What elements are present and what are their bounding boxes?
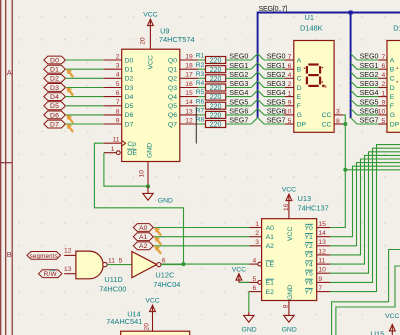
U9 pin 1 OE (inverted) [104, 146, 138, 157]
svg-text:B: B [390, 67, 395, 74]
global label D0 [44, 56, 66, 64]
svg-text:SEG3: SEG3 [267, 79, 286, 88]
svg-text:Q4: Q4 [168, 94, 177, 101]
inverter U12C 74HC04 [132, 252, 166, 278]
U9 pin 5 D3 [103, 81, 133, 92]
bus entry SEG5 (left) [251, 99, 257, 106]
wire NAND out to inverter in [107, 264, 132, 266]
U1 pin 8 CC [322, 118, 344, 129]
global label D7 [44, 120, 66, 128]
svg-text:dp: dp [324, 85, 328, 89]
svg-text:1: 1 [381, 90, 385, 97]
sheet border frame [0, 0, 12, 335]
U9 pin 4 D2 [103, 72, 133, 83]
U13 pin 5 E1 (inverted) [239, 276, 274, 287]
U9 pin 13 Q6 [168, 108, 198, 119]
svg-text:SEG0: SEG0 [229, 52, 248, 61]
display2 pin 1 E [378, 90, 395, 101]
IC U13 74HC137 body [262, 219, 317, 301]
U1 pin 4 C [285, 72, 302, 83]
U9 pin 3 D1 [103, 63, 133, 74]
U13 pin 10 Y5 [304, 267, 330, 278]
global label D6 [44, 111, 66, 119]
svg-text:74HC04: 74HC04 [153, 280, 180, 289]
svg-text:SEG1: SEG1 [229, 61, 248, 70]
svg-text:14: 14 [318, 230, 326, 237]
display2 pin 2 D [378, 81, 395, 92]
svg-text:SEG6: SEG6 [267, 107, 286, 116]
svg-text:220: 220 [210, 58, 222, 65]
U13 pin 16 VCC [283, 203, 294, 241]
U9 pin 12 Q7 [168, 118, 198, 129]
display2 pin 10 G [378, 109, 395, 120]
wire + local label SEG3 to U1 [264, 79, 285, 88]
svg-text:Q2: Q2 [168, 76, 177, 83]
svg-text:SEG7: SEG7 [267, 116, 286, 125]
svg-text:Q6: Q6 [168, 112, 177, 119]
svg-text:12: 12 [318, 248, 326, 255]
U9 pin 19 Q0 [168, 53, 198, 64]
svg-text:SEG4: SEG4 [229, 88, 248, 97]
wire CC chain to displays right [345, 169, 400, 171]
display2 pin 6 B [378, 63, 395, 74]
U9 pin 11 Cp (clock) [103, 137, 136, 149]
svg-text:A1: A1 [266, 234, 275, 241]
svg-text:74HC137: 74HC137 [298, 203, 329, 212]
junction at U9 gnd [146, 184, 150, 188]
svg-text:E2: E2 [266, 289, 275, 296]
svg-text:12: 12 [64, 248, 72, 255]
svg-text:10: 10 [378, 109, 386, 116]
svg-text:SEG[0..7]: SEG[0..7] [259, 4, 288, 13]
resistor R4 220 [196, 80, 226, 92]
wire A0 label to U13 [153, 227, 249, 229]
wire + local label SEG0 to U1 [264, 52, 285, 61]
wire inverter out to U13 LE [161, 263, 250, 265]
wire + local label SEG2 to display 2 [357, 70, 378, 79]
svg-text:Y2: Y2 [304, 243, 313, 250]
svg-text:SEG1: SEG1 [360, 61, 379, 70]
bus entry SEG0 (left) [251, 54, 257, 60]
U1 pin 5 DP [285, 118, 307, 129]
bus entry SEG5 (U1 side) [258, 99, 264, 106]
svg-text:SEG0: SEG0 [267, 52, 286, 61]
wire + local label SEG4 to U1 [264, 88, 285, 97]
svg-text:6: 6 [116, 90, 120, 97]
svg-text:Q3: Q3 [168, 85, 177, 92]
svg-text:D3: D3 [125, 85, 134, 92]
wire E2 to GND [248, 292, 250, 312]
wire + local label SEG6 to display 2 [357, 107, 378, 116]
wire Q7 to R8 [198, 123, 205, 125]
U13 pin 2 A1 [250, 230, 275, 241]
svg-text:SEG5: SEG5 [267, 97, 286, 106]
ERC marker on A1 [154, 237, 161, 245]
svg-text:CC: CC [322, 121, 332, 128]
svg-text:SEG7: SEG7 [360, 116, 379, 125]
svg-text:15: 15 [185, 90, 193, 97]
svg-text:GND: GND [282, 326, 297, 333]
svg-text:10: 10 [139, 170, 146, 178]
display2 pin 7 A [378, 54, 395, 65]
NAND gate U11D 74HC00 [64, 248, 115, 279]
U9 pin 6 D4 [103, 90, 133, 101]
svg-text:C: C [297, 76, 302, 83]
svg-text:DP: DP [297, 121, 307, 128]
svg-text:6: 6 [162, 257, 166, 264]
svg-text:4: 4 [381, 72, 385, 79]
wire Q2 to R3 [198, 77, 205, 79]
svg-text:220: 220 [210, 94, 222, 101]
svg-text:A2: A2 [266, 243, 275, 250]
power symbol VCC (U9) [143, 11, 157, 49]
wire R5 to bus entry / local label SEG4 [226, 88, 252, 97]
svg-text:E1: E1 [266, 280, 275, 287]
wire + local label SEG7 to U1 [264, 116, 285, 125]
wire Q1 to R2 [198, 68, 205, 70]
bus entry SEG2 (display 2) [351, 72, 357, 78]
wire D4 to U9 pin 6 [65, 96, 103, 98]
wire Y5 to display CC (staircase) [330, 152, 400, 273]
svg-text:9: 9 [381, 100, 385, 107]
svg-text:R/W: R/W [44, 271, 58, 278]
svg-text:Y3: Y3 [304, 252, 313, 259]
wire Cp net: U9.11 to U13.4 LE [94, 143, 183, 264]
svg-text:SEG7: SEG7 [229, 116, 248, 125]
resistor R7 220 [196, 108, 226, 120]
svg-text:6: 6 [252, 285, 256, 292]
U13 pin 4 LE (inverted) [250, 258, 275, 269]
svg-text:U11D: U11D [104, 275, 122, 284]
wire + local label SEG6 to U1 [264, 107, 285, 116]
svg-text:11: 11 [113, 137, 120, 144]
svg-text:SEG6: SEG6 [360, 107, 379, 116]
svg-text:DP: DP [390, 121, 400, 128]
wire E1 to VCC [239, 281, 250, 283]
bus entry SEG7 (left) [251, 118, 257, 124]
U1 pin 7 A [285, 54, 302, 65]
wire from bottom (U15 area) to right displays (outer) [332, 250, 400, 335]
bus entry SEG3 (U1 side) [258, 81, 264, 88]
svg-text:3: 3 [255, 239, 259, 246]
svg-text:5: 5 [119, 257, 123, 264]
svg-text:R6: R6 [196, 98, 205, 105]
wire D3 to U9 pin 5 [65, 87, 103, 89]
wire + local label SEG0 to display 2 [357, 52, 378, 61]
svg-text:2: 2 [255, 230, 259, 237]
svg-text:G: G [390, 112, 395, 119]
svg-text:A: A [297, 57, 302, 64]
svg-text:3: 3 [336, 109, 340, 116]
display U1 D148K body [294, 41, 334, 133]
wire + local label SEG4 to display 2 [357, 88, 378, 97]
U9 pin 9 D7 [103, 118, 133, 129]
bus entry SEG2 (left) [251, 72, 257, 78]
U13 pin 14 Y1 [304, 230, 330, 241]
bus entry SEG6 (left) [251, 109, 257, 115]
bus entry SEG7 (U1 side) [258, 118, 264, 124]
wire + local label SEG2 to U1 [264, 70, 285, 79]
svg-text:Y1: Y1 [304, 234, 313, 241]
U13 pin 6 E2 [249, 285, 274, 296]
bus entry SEG1 (display 2) [351, 63, 357, 69]
svg-text:D6: D6 [50, 112, 59, 119]
U9 pin 17 Q2 [168, 72, 198, 83]
svg-text:5: 5 [252, 276, 256, 283]
U9 pin 2 D0 [103, 53, 133, 64]
wire + local label SEG7 to display 2 [357, 116, 378, 125]
svg-text:74HC00: 74HC00 [99, 284, 126, 293]
svg-text:SEG5: SEG5 [229, 97, 248, 106]
svg-text:Y5: Y5 [304, 271, 313, 278]
svg-text:D0: D0 [125, 57, 134, 64]
resistor R5 220 [196, 89, 226, 101]
wire D7 to U9 pin 9 [65, 123, 103, 125]
wire U1 CC pin3 loop [343, 115, 345, 124]
svg-text:1: 1 [255, 221, 259, 228]
wire from bottom (U15 area) to right displays (inner) [336, 266, 400, 335]
svg-text:SEG1: SEG1 [267, 61, 286, 70]
wire inverter output [161, 264, 184, 266]
svg-text:SEG2: SEG2 [267, 70, 286, 79]
bus entry SEG5 (display 2) [351, 99, 357, 106]
resistor R2 220 [196, 62, 226, 74]
display U2 body (clipped) [387, 41, 400, 133]
wire Q0 to R1 [198, 59, 205, 61]
svg-text:5: 5 [116, 81, 120, 88]
svg-text:D2: D2 [125, 76, 134, 83]
svg-text:14: 14 [185, 99, 193, 106]
resistor R1 220 [196, 53, 226, 65]
svg-text:D1: D1 [393, 24, 400, 33]
U9 pin 20 VCC [140, 37, 155, 69]
bus entry SEG4 (display 2) [351, 90, 357, 96]
svg-text:SEG6: SEG6 [229, 107, 248, 116]
global label D2 [44, 74, 66, 82]
ERC marker on D1 [66, 69, 73, 77]
U13 pin 11 Y4 [304, 258, 330, 269]
svg-text:7: 7 [381, 54, 385, 61]
wire + local label SEG5 to U1 [264, 97, 285, 106]
junction LE net [182, 262, 186, 266]
svg-text:GND: GND [158, 197, 173, 204]
svg-text:D: D [390, 85, 395, 92]
svg-text:74AHC541: 74AHC541 [106, 317, 142, 326]
ERC marker on D7 [66, 124, 73, 132]
U13 pin 3 A2 [250, 239, 275, 250]
svg-text:D6: D6 [125, 112, 134, 119]
svg-text:17: 17 [185, 72, 193, 79]
U1 pin 1 E [285, 90, 302, 101]
svg-text:220: 220 [210, 122, 222, 129]
svg-text:D5: D5 [125, 103, 134, 110]
svg-text:Q1: Q1 [168, 67, 177, 74]
U9 pin 10 GND [139, 143, 154, 186]
svg-text:D148K: D148K [300, 24, 323, 33]
svg-text:U13: U13 [298, 194, 312, 203]
power symbol VCC (U13) [282, 186, 296, 218]
svg-text:GND: GND [146, 143, 153, 158]
bus entry SEG6 (display 2) [351, 109, 357, 115]
global label D1 [44, 65, 66, 73]
svg-text:12: 12 [185, 118, 193, 125]
bus entry SEG3 (display 2) [351, 81, 357, 88]
svg-text:D4: D4 [125, 94, 134, 101]
wire + local label SEG3 to display 2 [357, 79, 378, 88]
wire Q6 to R7 [198, 114, 205, 116]
bus entry SEG2 (U1 side) [258, 72, 264, 78]
svg-text:F: F [297, 103, 301, 110]
svg-text:GND: GND [242, 326, 257, 333]
wire Y2 to display CC (staircase) [330, 163, 400, 246]
svg-text:VCC: VCC [287, 227, 294, 241]
svg-text:SEG5: SEG5 [360, 97, 379, 106]
junction CC to next displays [343, 168, 347, 172]
svg-text:1: 1 [288, 90, 292, 97]
global label A1 [133, 233, 153, 241]
svg-text:D7: D7 [50, 122, 59, 129]
svg-text:9: 9 [288, 100, 292, 107]
svg-text:Q5: Q5 [168, 103, 177, 110]
svg-text:A2: A2 [139, 243, 148, 250]
svg-text:15: 15 [318, 221, 326, 228]
wire Y7 to display CC (staircase) [330, 145, 400, 292]
bus entry SEG1 (left) [251, 63, 257, 69]
U9 pin 16 Q3 [168, 81, 198, 92]
svg-text:11: 11 [318, 258, 325, 265]
global label R/W [39, 270, 62, 278]
wire R8 to bus entry / local label SEG7 [226, 116, 252, 125]
U9 pin 8 D6 [103, 108, 133, 119]
U13 pin 13 Y2 [304, 239, 330, 250]
svg-text:SEG0: SEG0 [360, 52, 379, 61]
svg-text:D2: D2 [50, 76, 59, 83]
svg-text:9: 9 [318, 276, 322, 283]
global label D5 [44, 102, 66, 110]
bus vertical segment 1 (to U1) [257, 12, 259, 119]
svg-text:CC: CC [322, 112, 332, 119]
power symbol VCC (U15) [385, 313, 399, 335]
svg-text:VCC: VCC [145, 298, 159, 305]
svg-text:18: 18 [185, 63, 193, 70]
wire D2 to U9 pin 4 [65, 77, 103, 79]
global label A0 [133, 224, 153, 232]
svg-text:A1: A1 [139, 234, 148, 241]
svg-text:VCC: VCC [232, 267, 246, 274]
svg-text:1: 1 [111, 146, 115, 153]
svg-text:SEG3: SEG3 [360, 79, 379, 88]
svg-text:7: 7 [318, 285, 322, 292]
bus entry SEG4 (U1 side) [258, 90, 264, 96]
svg-text:Y6: Y6 [304, 280, 313, 287]
svg-text:VCC: VCC [143, 11, 157, 18]
svg-text:7: 7 [288, 54, 292, 61]
svg-text:R1: R1 [196, 53, 205, 60]
display2 pin 4 C [378, 72, 395, 83]
U13 pin 12 Y3 [304, 248, 330, 259]
U9 pin 7 D5 [103, 99, 133, 110]
svg-text:SEG4: SEG4 [267, 88, 286, 97]
svg-text:13: 13 [185, 108, 193, 115]
svg-text:2: 2 [116, 53, 120, 60]
svg-text:VCC: VCC [282, 186, 296, 193]
svg-text:4: 4 [288, 72, 292, 79]
ERC marker on D6 [66, 115, 73, 123]
svg-text:B: B [297, 67, 302, 74]
svg-text:220: 220 [210, 85, 222, 92]
svg-text:Q7: Q7 [168, 121, 177, 128]
U13 pin 1 A0 [250, 221, 275, 232]
bus entry SEG4 (left) [251, 90, 257, 96]
svg-text:A0: A0 [139, 225, 148, 232]
bus entry SEG0 (U1 side) [258, 54, 264, 60]
wire R6 to bus entry / local label SEG5 [226, 97, 252, 106]
wire R1 to bus entry / local label SEG0 [226, 52, 252, 61]
U1 pin 10 G [284, 109, 302, 120]
svg-text:SEG4: SEG4 [360, 88, 379, 97]
svg-text:VCC: VCC [147, 55, 154, 69]
svg-text:7: 7 [116, 99, 120, 106]
svg-text:13: 13 [318, 239, 326, 246]
svg-text:4: 4 [116, 72, 120, 79]
svg-text:Y7: Y7 [304, 289, 313, 296]
resistor R8 220 [196, 117, 226, 129]
svg-text:16: 16 [185, 81, 193, 88]
U1 pin 2 D [285, 81, 302, 92]
wire + local label SEG1 to U1 [264, 61, 285, 70]
U1 seven segment glyph [304, 65, 328, 89]
bus junction [349, 11, 353, 15]
display U2 seven segment glyph (clipped) [397, 68, 399, 82]
svg-text:13: 13 [64, 266, 72, 273]
IC U9 74HCT574 body [122, 49, 180, 161]
bus entry SEG1 (U1 side) [258, 63, 264, 69]
wire R2 to bus entry / local label SEG1 [226, 61, 252, 70]
U9 pin 14 Q5 [168, 99, 198, 110]
svg-text:E: E [297, 94, 302, 101]
svg-text:11: 11 [108, 257, 115, 264]
svg-text:U12C: U12C [155, 271, 175, 280]
wire Y1 to display CC (staircase) [330, 166, 400, 237]
wire CC net down to Y0 [330, 124, 345, 228]
wire D6 to U9 pin 8 [65, 114, 103, 116]
svg-text:GND: GND [287, 285, 294, 300]
svg-text:D5: D5 [50, 103, 59, 110]
U1 pin 9 F [285, 100, 301, 111]
wire R3 to bus entry / local label SEG2 [226, 70, 252, 79]
global label D3 [44, 84, 66, 92]
U1 pin 6 B [285, 63, 302, 74]
svg-text:E: E [390, 94, 395, 101]
svg-text:74HCT574: 74HCT574 [159, 35, 195, 44]
svg-text:U15: U15 [371, 330, 385, 335]
svg-text:20: 20 [144, 323, 151, 331]
svg-text:Y0: Y0 [304, 225, 313, 232]
svg-text:SEG2: SEG2 [360, 70, 379, 79]
wire Y4 to display CC (staircase) [330, 155, 400, 264]
ground symbol under U13 [282, 301, 297, 334]
svg-text:A0: A0 [266, 225, 275, 232]
svg-text:D3: D3 [50, 85, 59, 92]
global label A2 [133, 242, 153, 250]
svg-text:220: 220 [210, 67, 222, 74]
svg-text:8: 8 [336, 118, 340, 125]
wire + local label SEG5 to display 2 [357, 97, 378, 106]
svg-text:G: G [297, 112, 302, 119]
wire R4 to bus entry / local label SEG3 [226, 79, 252, 88]
svg-text:D1: D1 [125, 67, 134, 74]
svg-text:SEG2: SEG2 [229, 70, 248, 79]
